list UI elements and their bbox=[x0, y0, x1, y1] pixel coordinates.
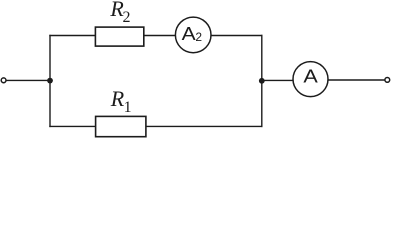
wire (left vertical riser) bbox=[49, 35, 51, 127]
svg-text:A: A bbox=[182, 23, 197, 44]
wire (top branch, node to R2) bbox=[49, 35, 96, 37]
svg-text:2: 2 bbox=[123, 9, 131, 26]
terminal left bbox=[1, 78, 6, 83]
svg-text:2: 2 bbox=[195, 30, 202, 44]
wire (ammeter A to right terminal) bbox=[328, 79, 385, 81]
wire (right vertical riser) bbox=[261, 35, 263, 127]
wire (R1 to bottom-right corner) bbox=[146, 125, 263, 127]
svg-text:1: 1 bbox=[124, 99, 132, 116]
wire (A2 to top-right corner) bbox=[211, 35, 263, 37]
wire (right node to ammeter A) bbox=[262, 79, 294, 81]
resistor R1 bbox=[96, 116, 146, 136]
resistor R2 bbox=[95, 27, 143, 46]
node (left junction) bbox=[47, 78, 53, 84]
terminal right bbox=[385, 78, 390, 83]
wire (left terminal to left node) bbox=[6, 79, 50, 81]
ammeter A2 bbox=[175, 17, 211, 53]
ammeter A bbox=[293, 62, 328, 97]
wire (R2 to ammeter A2) bbox=[144, 35, 176, 37]
node (right junction) bbox=[259, 78, 265, 84]
svg-text:R: R bbox=[110, 86, 125, 111]
wire (bottom branch, node to R1) bbox=[49, 125, 96, 127]
svg-text:A: A bbox=[303, 66, 318, 87]
